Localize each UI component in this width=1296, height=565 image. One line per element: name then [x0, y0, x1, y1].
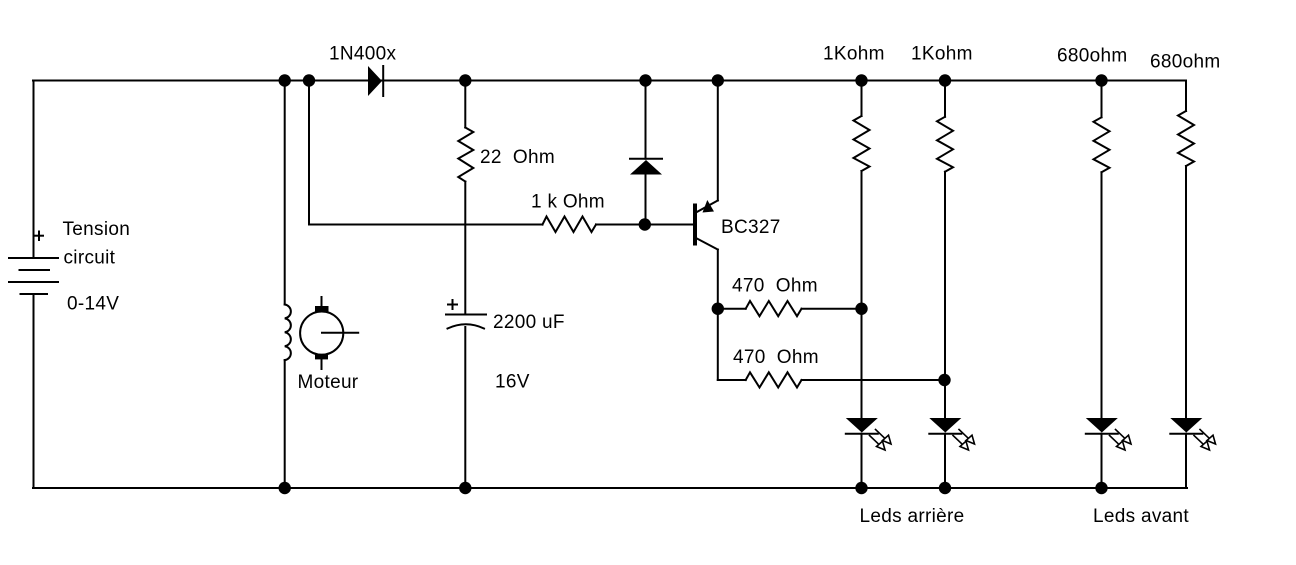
- wire diode D2 branch vertical lower: [645, 175, 647, 225]
- LED branch1 light arrows: [870, 430, 892, 451]
- wire branch2 lower: [944, 434, 946, 488]
- wire bottom rail: [33, 487, 1187, 489]
- junction dot bottom rail capacitor: [459, 482, 471, 494]
- wire base feed horizontal: [309, 224, 543, 226]
- wire 22ohm branch to capacitor: [464, 182, 466, 315]
- svg-text:Moteur: Moteur: [298, 372, 359, 393]
- wire battery left vertical bottom: [33, 294, 35, 488]
- wire collector to 470 ohm no2: [718, 379, 746, 381]
- junction dot bottom rail branch1: [855, 482, 867, 494]
- svg-text:2200 uF: 2200 uF: [493, 312, 565, 333]
- svg-text:1Kohm: 1Kohm: [823, 44, 885, 65]
- svg-text:470 Ohm: 470 Ohm: [733, 347, 819, 368]
- motor M1 shaft line: [322, 332, 358, 334]
- wire branch3 middle: [1101, 172, 1103, 418]
- resistor R-1Kohm branch1: [854, 116, 870, 171]
- transistor Q1 emitter line: [695, 201, 718, 214]
- capacitor C1 plus sign: [448, 300, 457, 309]
- resistor R-470 no1: [746, 301, 802, 316]
- svg-text:Tension: Tension: [63, 219, 131, 240]
- svg-text:0-14V: 0-14V: [67, 294, 119, 315]
- svg-text:BC327: BC327: [721, 217, 781, 238]
- motor M1 body circle: [300, 312, 343, 355]
- wire branch3 upper: [1101, 81, 1103, 118]
- junction dot top rail branch2: [939, 74, 951, 86]
- LED branch2 light arrows: [953, 430, 975, 451]
- junction dot top rail emitter: [712, 74, 724, 86]
- junction dot top rail branch1: [855, 74, 867, 86]
- junction dot 470 no2 branch2: [938, 374, 950, 386]
- resistor R-1kohm horizontal: [543, 217, 597, 233]
- wire 470 no2 to branch2: [802, 379, 945, 381]
- junction dot bottom rail branch2: [939, 482, 951, 494]
- battery B1 plates: [9, 258, 58, 294]
- wire branch1 upper: [861, 81, 863, 117]
- svg-text:circuit: circuit: [64, 248, 116, 269]
- wire 470 no1 to branch1: [802, 308, 862, 310]
- svg-text:16V: 16V: [495, 372, 530, 393]
- resistor R-470 no2: [746, 372, 802, 387]
- wire 22ohm branch upper: [464, 81, 466, 128]
- junction dot top rail base feed: [303, 74, 315, 86]
- diode D1 1N400x: [368, 66, 383, 96]
- junction dot collector 470 node: [712, 303, 724, 315]
- wire emitter to top rail: [717, 81, 719, 201]
- battery B1 plus sign: [35, 232, 43, 241]
- LED branch3: [1086, 418, 1118, 434]
- transistor Q1 emitter arrow: [703, 200, 715, 213]
- LED branch3 light arrows: [1110, 430, 1132, 451]
- wire branch1 lower: [861, 434, 863, 488]
- junction dot top rail motor: [279, 74, 291, 86]
- svg-text:1 k Ohm: 1 k Ohm: [531, 192, 605, 213]
- wire collector down: [717, 250, 719, 381]
- svg-text:1N400x: 1N400x: [329, 44, 396, 65]
- wire branch4 middle: [1185, 166, 1187, 418]
- LED branch4 light arrows: [1194, 430, 1216, 451]
- junction dot top rail diode D2: [639, 74, 651, 86]
- wire branch4 upper: [1185, 81, 1187, 112]
- junction dot bottom rail branch3: [1095, 482, 1107, 494]
- wire motor branch lower: [284, 360, 286, 488]
- resistor R-22ohm: [458, 128, 473, 182]
- junction dot top rail 22ohm: [459, 74, 471, 86]
- junction dot base node: [639, 218, 651, 230]
- resistor R-680ohm branch3: [1094, 117, 1110, 172]
- svg-text:Leds avant: Leds avant: [1093, 506, 1189, 527]
- wire diode D2 branch vertical upper: [645, 81, 647, 159]
- svg-text:470 Ohm: 470 Ohm: [732, 276, 818, 297]
- inductor motor coil: [285, 305, 291, 361]
- motor M1 bottom brush terminal: [315, 354, 328, 369]
- transistor Q1 collector line: [695, 238, 718, 250]
- LED branch1: [846, 418, 878, 434]
- junction dot 470 no1 branch1: [855, 303, 867, 315]
- wire from top rail down to base feed: [308, 81, 310, 225]
- capacitor C1 plates: [446, 315, 486, 329]
- svg-text:22 Ohm: 22 Ohm: [480, 147, 555, 168]
- resistor R-1Kohm branch2: [937, 117, 953, 172]
- resistor R-680ohm branch4: [1178, 111, 1194, 166]
- wire branch2 middle: [944, 172, 946, 418]
- wire capacitor to bottom rail: [464, 327, 466, 488]
- wire battery left vertical top: [33, 81, 35, 259]
- wire top rail: [33, 80, 1186, 82]
- junction dot top rail branch3: [1095, 74, 1107, 86]
- wire branch4 lower: [1185, 434, 1187, 488]
- wire branch2 upper: [944, 81, 946, 117]
- transistor Q1 BC327 body bar: [693, 206, 697, 244]
- motor M1 top brush terminal: [315, 297, 329, 312]
- wire branch3 lower: [1101, 434, 1103, 488]
- wire motor branch upper: [284, 81, 286, 305]
- svg-text:680ohm: 680ohm: [1057, 46, 1127, 67]
- wire base resistor to junction: [596, 224, 693, 226]
- diode D2 vertical: [630, 159, 662, 175]
- LED branch2: [929, 418, 961, 434]
- LED branch4: [1170, 418, 1202, 434]
- svg-text:680ohm: 680ohm: [1150, 52, 1220, 73]
- wire branch1 middle: [861, 171, 863, 418]
- wire collector to 470 ohm no1: [718, 308, 746, 310]
- svg-text:Leds arrière: Leds arrière: [860, 506, 965, 527]
- junction dot bottom rail motor: [279, 482, 291, 494]
- svg-text:1Kohm: 1Kohm: [911, 44, 973, 65]
